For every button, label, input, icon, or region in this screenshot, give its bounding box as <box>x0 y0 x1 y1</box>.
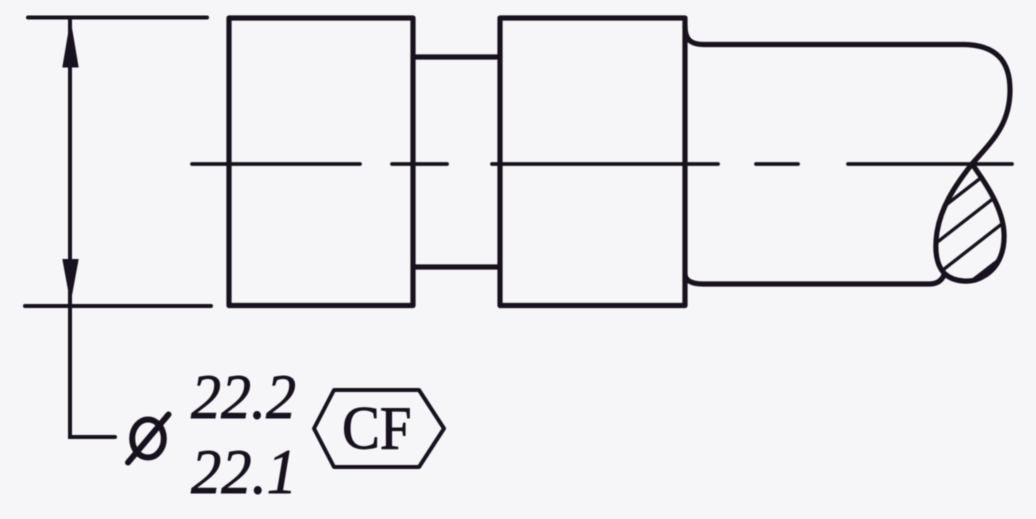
svg-text:22.2: 22.2 <box>191 361 296 432</box>
svg-text:CF: CF <box>342 396 412 463</box>
svg-text:22.1: 22.1 <box>191 436 297 507</box>
